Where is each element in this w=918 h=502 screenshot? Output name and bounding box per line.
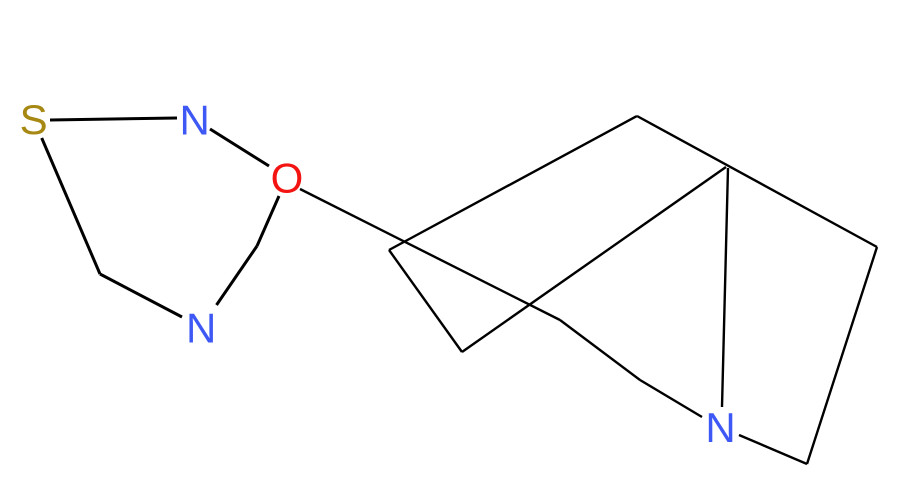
bond B-N2 bbox=[100, 274, 182, 317]
bond O-Q1 long chain bbox=[300, 189, 560, 320]
svg-text:S: S bbox=[20, 96, 48, 143]
svg-text:N: N bbox=[705, 404, 735, 451]
bond P1-M2 long bbox=[462, 167, 726, 352]
bond P0-P1 bbox=[389, 250, 462, 352]
bond S-B bbox=[42, 138, 100, 274]
bond R1-E bbox=[807, 247, 877, 464]
bond N1-O bbox=[210, 129, 269, 166]
bond T-R1 cage right leg bbox=[637, 116, 877, 247]
bond T-P0 cage left leg bbox=[389, 116, 637, 250]
svg-text:O: O bbox=[271, 154, 304, 201]
svg-text:N: N bbox=[180, 96, 210, 143]
svg-text:N: N bbox=[186, 305, 216, 352]
bond V-N2 bbox=[217, 246, 258, 305]
bond N3-M2 vertical bbox=[722, 168, 728, 407]
bond O-V bbox=[257, 196, 279, 246]
bond Q1-Q2 bbox=[560, 320, 640, 380]
bond E-N3 bbox=[739, 435, 807, 464]
bond S-N1 bbox=[50, 118, 177, 120]
bond Q2-N3 bbox=[640, 380, 702, 417]
